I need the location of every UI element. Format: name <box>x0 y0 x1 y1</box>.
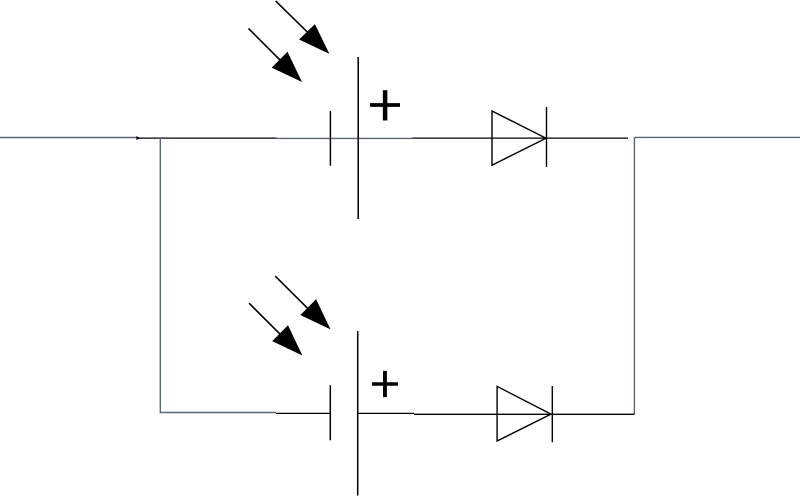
solar cell PV1: light arrow 1 shaft <box>276 1 308 33</box>
solar cell PV1: short plate (negative) <box>329 111 331 166</box>
solar cell PV2: plus label <box>372 371 398 397</box>
solar cell PV2: light arrow 2 head <box>272 325 302 355</box>
wire: right bus vertical (gray) <box>633 137 635 414</box>
diode D1: cathode bar <box>546 107 548 167</box>
wire: bottom branch left lead (black) <box>276 412 330 414</box>
solar cell PV1: long plate (positive) <box>357 57 359 219</box>
wire: left bus vertical (gray) <box>159 138 161 413</box>
solar cell PV1: light arrow 1 head <box>299 24 329 54</box>
solar cell PV2: short plate (negative) <box>329 385 331 440</box>
solar cell PV2: light arrow 1 head <box>300 299 330 329</box>
solar cell PV1: light arrow 2 shaft <box>249 29 281 61</box>
node A: connector arrowhead at left junction <box>136 136 141 140</box>
solar cell PV2: light arrow 2 shaft <box>249 303 281 335</box>
solar cell PV1: plus label <box>370 90 400 120</box>
solar cell PV2: light arrow 1 shaft <box>275 276 307 308</box>
wire: bottom branch gray lead <box>160 412 276 414</box>
wire: top branch left lead (black) <box>138 137 277 139</box>
wire: bottom branch right lead (black) <box>414 413 634 415</box>
wire: left input bus (gray) <box>0 137 138 139</box>
wire: solar cell PV1 internal lead (gray, crosses plates) <box>277 137 413 139</box>
wire: right output bus horizontal (gray) <box>634 136 800 138</box>
diode D2: triangle <box>497 386 551 441</box>
wire: bottom cell right lead (black) <box>358 412 414 414</box>
solar cell PV1: light arrow 2 head <box>272 52 302 82</box>
diode D1: triangle <box>492 111 546 165</box>
solar cell PV2: long plate (positive) <box>357 331 359 496</box>
wire: top branch right lead (black) <box>413 137 629 139</box>
diode D2: cathode bar <box>551 386 553 442</box>
